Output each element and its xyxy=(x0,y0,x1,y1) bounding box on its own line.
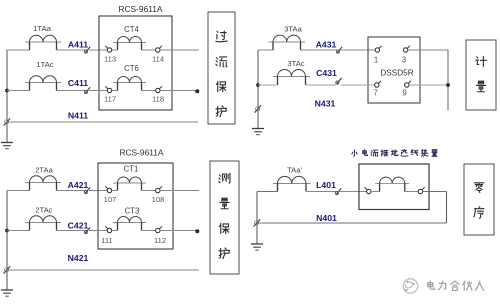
relay box RCS-9611A (measurement) xyxy=(98,163,173,249)
terminal 112 xyxy=(156,226,163,233)
svg-text:1TAc: 1TAc xyxy=(36,60,53,69)
wire stub 111 to CT3 xyxy=(112,230,118,232)
title char di xyxy=(391,150,398,156)
meter terminal 3 xyxy=(403,46,410,53)
svg-text:C411: C411 xyxy=(68,78,88,88)
wire stub CT4 to 114 xyxy=(142,49,157,51)
wire TAa' to L401 mark xyxy=(306,191,336,193)
svg-text:117: 117 xyxy=(104,95,116,104)
wire terminal 114 out xyxy=(160,49,199,51)
label box measurement protection xyxy=(210,161,239,274)
test tap on A421 xyxy=(84,187,90,193)
wire stub 107 to CT1 xyxy=(112,190,118,192)
wire bus to 2TAa xyxy=(7,190,30,192)
terminal 118 xyxy=(156,86,163,93)
wm char ren xyxy=(475,281,484,290)
device terminal right xyxy=(418,187,425,194)
svg-text:2TAa: 2TAa xyxy=(35,166,53,175)
ground TR xyxy=(252,129,264,135)
wire A421 to terminal 107 xyxy=(89,190,107,192)
char liu (current) xyxy=(216,57,227,67)
svg-text:N411: N411 xyxy=(68,111,88,121)
char liang (quantity) 2 xyxy=(476,81,485,92)
meter terminal 1 xyxy=(375,46,382,53)
svg-text:108: 108 xyxy=(152,195,165,204)
char xu (sequence) xyxy=(474,207,484,218)
svg-text:2TAc: 2TAc xyxy=(35,206,52,215)
svg-text:RCS-9611A: RCS-9611A xyxy=(118,4,162,14)
wire 3TAa to A431 mark xyxy=(301,49,337,51)
test tap on A431 xyxy=(336,47,342,53)
svg-text:C421: C421 xyxy=(68,221,89,231)
wire meter return vertical xyxy=(447,50,449,110)
wire 1TAa to A411 mark xyxy=(57,49,87,51)
zero-sequence current transformer TAa' xyxy=(273,176,311,191)
svg-text:107: 107 xyxy=(104,195,117,204)
wm char he xyxy=(451,281,459,290)
wire bus to 1TAc xyxy=(7,90,30,92)
char ce (measure) xyxy=(219,173,230,183)
wire terminal 118 out xyxy=(160,90,196,92)
wire device return vertical xyxy=(446,192,448,224)
wm char li xyxy=(438,281,445,290)
svg-text:112: 112 xyxy=(154,236,166,245)
wire stub CT6 to 118 xyxy=(142,90,157,92)
current transformer 2TAa xyxy=(25,176,61,191)
title char liu xyxy=(371,150,378,156)
test terminal N401 at bus xyxy=(254,219,261,226)
watermark logo circle xyxy=(403,279,417,293)
wire stub 117 to CT6 xyxy=(112,90,118,92)
current transformer 3TAc xyxy=(273,70,310,86)
wire L401 to selector device xyxy=(339,191,367,193)
label box metering xyxy=(466,40,496,110)
winding CT6 xyxy=(113,77,146,91)
energy meter box DSSD5R xyxy=(368,37,420,103)
junction bus/C421 xyxy=(5,229,9,233)
svg-text:CT4: CT4 xyxy=(124,25,139,34)
svg-text:3TAa: 3TAa xyxy=(284,25,302,34)
junction meter return/C-row xyxy=(446,83,450,87)
svg-text:N431: N431 xyxy=(315,99,336,109)
terminal 108 xyxy=(156,186,163,193)
wire device internal right xyxy=(405,191,418,193)
svg-text:A431: A431 xyxy=(316,40,337,50)
char liang (quantity) xyxy=(220,198,229,209)
char ji (meter) xyxy=(476,56,487,66)
winding CT1 xyxy=(113,177,146,191)
node end dot C-phase BL xyxy=(195,229,199,233)
svg-text:7: 7 xyxy=(373,89,377,98)
wire stub CT3 to 112 xyxy=(142,230,157,232)
wire device out right xyxy=(423,191,447,193)
test terminal on N411 at bus xyxy=(4,118,11,125)
ground BL xyxy=(1,290,13,296)
wire meter terminal 3 out xyxy=(408,49,448,51)
svg-text:113: 113 xyxy=(104,55,116,64)
wire N401 xyxy=(257,222,447,224)
label box overcurrent protection xyxy=(208,12,235,124)
meter terminal 7 xyxy=(375,81,382,88)
test terminal N431 at bus xyxy=(255,105,262,112)
svg-text:A421: A421 xyxy=(68,180,89,190)
meter terminal 9 xyxy=(405,81,412,88)
svg-text:CT1: CT1 xyxy=(124,165,139,174)
svg-text:9: 9 xyxy=(402,89,406,98)
svg-text:CT3: CT3 xyxy=(125,207,140,216)
winding CT3 xyxy=(113,217,146,231)
wire C411 to terminal 117 xyxy=(89,90,107,92)
wire bus to 3TAa xyxy=(258,49,273,51)
wire left bus N411 section vertical xyxy=(6,50,8,143)
wire C421 to terminal 111 xyxy=(89,230,107,232)
terminal 114 xyxy=(156,46,163,53)
wm char dian xyxy=(428,281,435,289)
svg-text:L401: L401 xyxy=(316,180,336,190)
title char zhi xyxy=(432,150,437,157)
wire meter terminal 9 out xyxy=(409,84,448,86)
char bao (protect) xyxy=(216,81,226,91)
winding CT4 xyxy=(113,37,146,51)
wire device internal left xyxy=(371,191,380,193)
wire 1TAc to C411 mark xyxy=(57,90,87,92)
svg-text:N421: N421 xyxy=(68,253,89,263)
svg-text:CT6: CT6 xyxy=(124,64,139,73)
wire bus to TAa' xyxy=(257,191,278,193)
label box zero-sequence xyxy=(464,164,494,235)
test tap on L401 xyxy=(335,188,341,194)
terminal 107 xyxy=(105,186,112,193)
svg-text:3: 3 xyxy=(402,56,406,65)
svg-text:111: 111 xyxy=(101,236,113,245)
current transformer 1TAa xyxy=(25,35,61,50)
svg-text:118: 118 xyxy=(152,95,164,104)
svg-text:C431: C431 xyxy=(316,68,337,78)
svg-text:114: 114 xyxy=(152,55,164,64)
wire N421 xyxy=(7,269,199,271)
wire right-bottom bus vertical xyxy=(256,192,258,245)
wire terminal 112 out xyxy=(160,230,196,232)
node end dot C-phase TL xyxy=(195,89,199,93)
svg-text:TAa': TAa' xyxy=(287,166,302,175)
wm char huo xyxy=(463,281,472,290)
terminal 117 xyxy=(105,86,112,93)
wire terminal 108 out xyxy=(160,190,199,192)
char hu (guard) 2 xyxy=(219,248,230,259)
char bao (protect) 2 xyxy=(219,223,229,233)
svg-text:N401: N401 xyxy=(316,213,337,223)
wire 2TAa to A421 mark xyxy=(57,190,87,192)
terminal 113 xyxy=(105,46,112,53)
wire right-top bus vertical xyxy=(257,50,259,129)
wire C431 to meter terminal 7 xyxy=(341,84,375,86)
junction bus/C411 xyxy=(5,89,9,93)
wire stub 113 to CT4 xyxy=(112,49,118,51)
title char zhuang xyxy=(421,150,428,157)
title char xiao xyxy=(352,150,357,156)
char hu (guard) xyxy=(216,106,227,117)
ground BR xyxy=(251,244,263,250)
terminal 111 xyxy=(105,226,112,233)
wire A411 to terminal 113 xyxy=(89,49,107,51)
wire bus to 1TAa xyxy=(7,49,30,51)
char ling (zero) xyxy=(474,183,484,193)
wire left bus lower vertical xyxy=(6,191,8,291)
char guo (over) xyxy=(216,31,227,42)
wire bus to 2TAc xyxy=(7,230,30,232)
svg-text:1: 1 xyxy=(374,56,378,65)
test terminal on N421 at bus xyxy=(4,266,11,273)
wire 2TAc to C421 mark xyxy=(57,230,87,232)
relay box RCS-9611A (protection) xyxy=(99,16,172,110)
wire A431 to meter terminal 1 xyxy=(340,49,376,51)
title char jie xyxy=(381,150,388,156)
svg-text:A411: A411 xyxy=(68,40,88,50)
line-selection device box xyxy=(359,164,429,210)
svg-text:1TAa: 1TAa xyxy=(33,24,51,33)
wire bus to 3TAc xyxy=(258,84,278,86)
current transformer 3TAa xyxy=(269,35,306,50)
test tap on C411 xyxy=(84,87,90,93)
current transformer 2TAc xyxy=(25,216,61,231)
wire 3TAc to C431 mark xyxy=(306,84,337,86)
svg-text:DSSD5R: DSSD5R xyxy=(380,69,413,78)
title char dian xyxy=(363,150,368,156)
device terminal left xyxy=(365,187,371,194)
wire N411 xyxy=(7,121,198,123)
winding inside selector device xyxy=(375,177,409,191)
test tap on C421 xyxy=(84,227,90,233)
svg-text:RCS-9611A: RCS-9611A xyxy=(119,148,163,158)
svg-text:3TAc: 3TAc xyxy=(287,59,304,68)
ground TL xyxy=(1,143,13,149)
wire stub CT1 to 108 xyxy=(142,190,157,192)
test tap on A411 xyxy=(84,47,90,53)
title char xuan xyxy=(401,150,408,157)
title char xian xyxy=(411,150,418,156)
test tap on C431 xyxy=(336,78,342,84)
current transformer 1TAc xyxy=(25,76,61,91)
junction bus/C431 xyxy=(256,83,260,87)
